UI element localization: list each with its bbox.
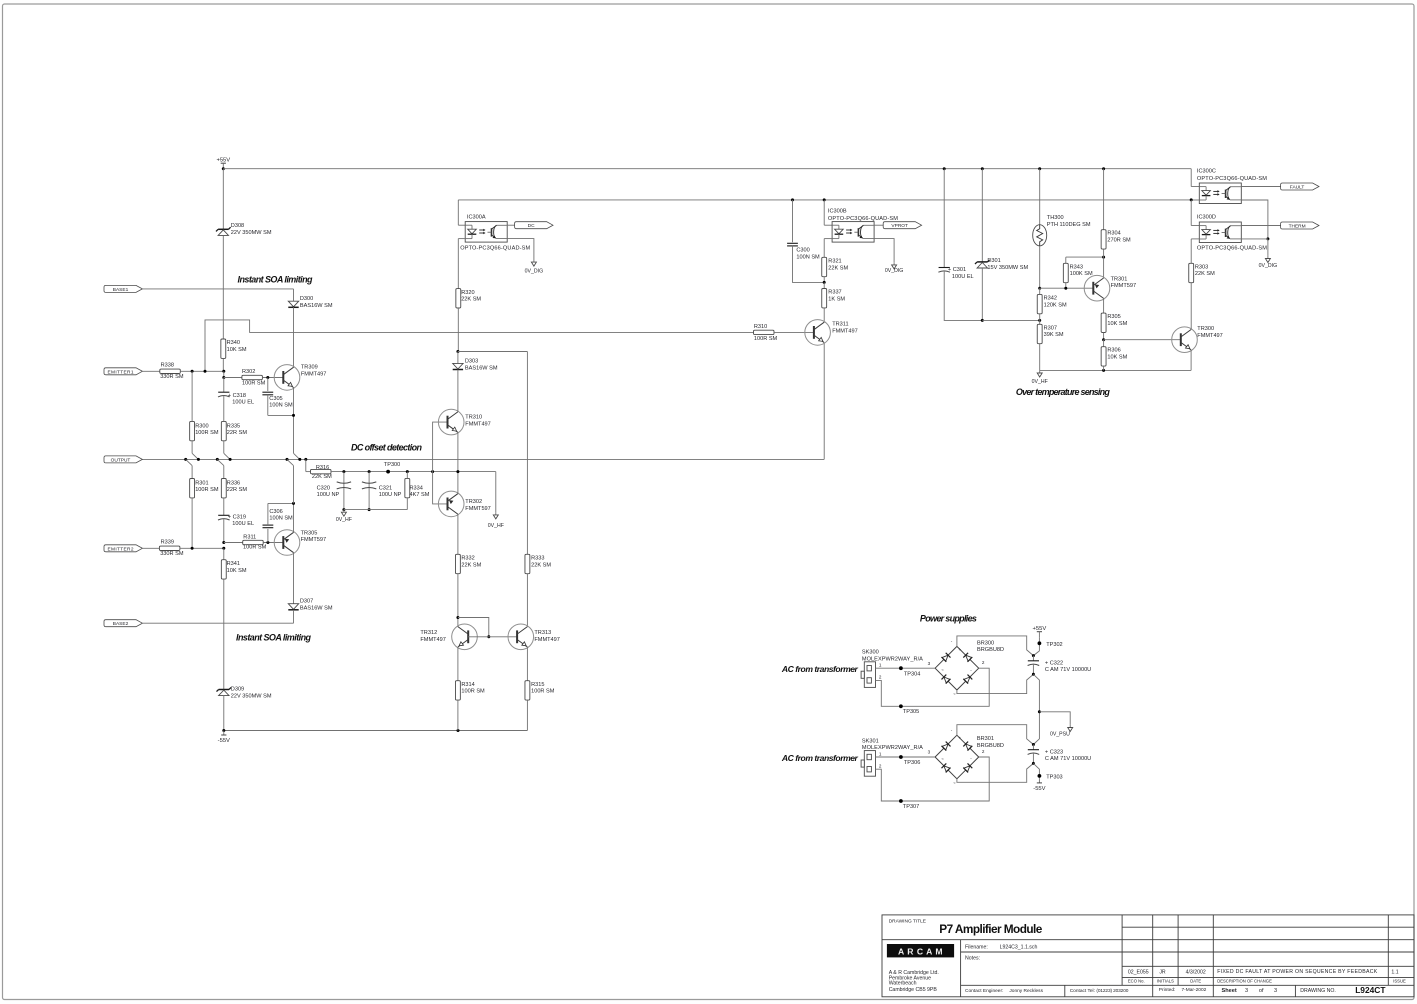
svg-text:22K SM: 22K SM: [1195, 271, 1215, 277]
svg-text:FMMT497: FMMT497: [420, 637, 446, 643]
svg-text:JR: JR: [1159, 970, 1166, 976]
svg-text:Instant SOA limiting: Instant SOA limiting: [236, 633, 312, 643]
transistor TR309: [274, 365, 300, 391]
svg-text:BRGBU8D: BRGBU8D: [977, 647, 1004, 653]
wire TR309 emitter: [293, 388, 295, 454]
optocoupler IC300A: [457, 200, 459, 225]
svg-text:BASE2: BASE2: [113, 621, 129, 627]
svg-text:Filename:: Filename:: [965, 944, 988, 950]
node top rail junctions: [943, 167, 946, 170]
bridge rectifier BR300: [935, 646, 957, 668]
diode D307: [288, 604, 298, 610]
wire IC300A cathode to R320: [458, 238, 465, 240]
svg-text:0V_DIG: 0V_DIG: [885, 268, 903, 274]
svg-text:D309: D309: [231, 686, 244, 692]
ground 0V_PSU: [1039, 712, 1070, 725]
svg-text:2: 2: [879, 675, 882, 680]
resistor R302: [242, 375, 263, 379]
node OUTPUT jogs left: [192, 453, 198, 459]
svg-text:BAS16W SM: BAS16W SM: [465, 366, 498, 372]
transistor TR300: [1172, 327, 1198, 353]
svg-text:SK301: SK301: [862, 738, 879, 744]
net label EMITTER2: [104, 545, 142, 552]
svg-text:22K SM: 22K SM: [461, 562, 481, 568]
svg-text:1: 1: [879, 751, 882, 756]
svg-text:100N SM: 100N SM: [269, 516, 293, 522]
diode D300: [288, 301, 298, 307]
svg-text:R339: R339: [161, 540, 174, 546]
svg-text:IC300B: IC300B: [828, 209, 847, 215]
svg-text:D307: D307: [300, 599, 313, 605]
svg-text:TR301: TR301: [1111, 276, 1128, 282]
svg-text:Contact Tel:: Contact Tel:: [1070, 988, 1095, 994]
svg-text:330R SM: 330R SM: [160, 374, 184, 380]
svg-text:FMMT597: FMMT597: [465, 506, 491, 512]
svg-text:4K7 SM: 4K7 SM: [410, 492, 430, 498]
wire BR300 negative loop: [957, 674, 1034, 693]
transistor TR311: [805, 320, 831, 346]
svg-text:100U EL: 100U EL: [952, 274, 974, 280]
svg-text:TR310: TR310: [465, 414, 482, 420]
test point TP305: [899, 704, 903, 708]
svg-text:R338: R338: [161, 363, 174, 369]
transistor TR301: [1103, 257, 1105, 278]
svg-text:BRGBU8D: BRGBU8D: [977, 743, 1004, 749]
resistor R306: [1103, 340, 1105, 347]
svg-text:R332: R332: [461, 555, 474, 561]
test point TP307: [899, 799, 903, 803]
svg-text:Over temperature sensing: Over temperature sensing: [1016, 387, 1111, 397]
svg-text:3: 3: [928, 750, 931, 755]
svg-text:OPTO-PC3Q66-QUAD-SM: OPTO-PC3Q66-QUAD-SM: [828, 216, 898, 222]
svg-text:100R SM: 100R SM: [243, 545, 267, 551]
wire OUTPUT bus: [142, 458, 824, 460]
wire R311 base line: [222, 541, 225, 544]
transistor TR313: [508, 624, 534, 650]
wire IC300D cathode to R303: [1191, 238, 1199, 240]
svg-text:TR300: TR300: [1197, 326, 1214, 332]
zener D301: [981, 169, 983, 262]
net label EMITTER1: [104, 368, 142, 375]
svg-text:0V_DIG: 0V_DIG: [1259, 263, 1277, 269]
zener D309: [219, 689, 229, 691]
svg-text:TR305: TR305: [301, 530, 318, 536]
svg-text:FMMT497: FMMT497: [832, 329, 858, 335]
node emitter junction: [1266, 237, 1269, 240]
wire 0V_HF rail: [1040, 369, 1191, 371]
resistor R333: [526, 352, 528, 555]
svg-text:TP300: TP300: [384, 462, 400, 468]
svg-text:22K SM: 22K SM: [312, 474, 332, 480]
svg-text:MOLEXPWR2WAY_R/A: MOLEXPWR2WAY_R/A: [862, 745, 923, 751]
svg-text:BASE1: BASE1: [113, 287, 129, 293]
ground 0V_DIG under IC300A: [507, 239, 534, 260]
svg-text:P7 Amplifier Module: P7 Amplifier Module: [939, 922, 1042, 936]
node EMITTER1 junctions: [191, 370, 194, 373]
wire TR300 emitter: [1190, 350, 1192, 371]
svg-text:Jonny Reckless: Jonny Reckless: [1009, 988, 1043, 994]
svg-text:100U EL: 100U EL: [232, 521, 254, 527]
node R305/R306 junction: [1102, 338, 1105, 341]
test point TP304: [899, 666, 903, 670]
svg-text:10K SM: 10K SM: [1107, 355, 1127, 361]
svg-text:A R C A M: A R C A M: [898, 946, 943, 956]
bridge rectifier BR301: [935, 735, 957, 757]
transistor TR312: [452, 624, 478, 650]
svg-text:IC300C: IC300C: [1197, 169, 1216, 175]
wire TR302 collector to R332: [457, 514, 459, 554]
svg-text:100N SM: 100N SM: [269, 402, 293, 408]
wire EMITTER1 lead: [142, 370, 159, 372]
svg-text:22R SM: 22R SM: [227, 487, 248, 493]
svg-text:Power supplies: Power supplies: [920, 614, 977, 624]
svg-text:TP304: TP304: [904, 671, 920, 677]
svg-text:100U NP: 100U NP: [379, 492, 402, 498]
wire EMITTER1 feedback to R310: [205, 320, 754, 371]
wire R302 base line: [223, 371, 225, 377]
svg-text:C321: C321: [379, 485, 392, 491]
svg-text:TR302: TR302: [465, 499, 482, 505]
svg-text:R303: R303: [1195, 264, 1208, 270]
svg-text:Instant SOA limiting: Instant SOA limiting: [238, 275, 314, 285]
svg-text:-55V: -55V: [218, 738, 230, 744]
capacitor C318: [223, 378, 225, 393]
svg-text:R342: R342: [1044, 295, 1057, 301]
svg-text:D303: D303: [465, 359, 478, 365]
svg-text:DATE: DATE: [1190, 979, 1201, 984]
svg-text:4/3/2002: 4/3/2002: [1186, 970, 1206, 976]
svg-text:ECO No.: ECO No.: [1128, 979, 1145, 984]
svg-text:C320: C320: [317, 485, 330, 491]
wire TP302 jog: [1033, 651, 1039, 656]
svg-text:R314: R314: [461, 682, 474, 688]
connector SK300: [864, 662, 875, 688]
wire +55V top rail: [223, 168, 1191, 170]
svg-text:0V_PSU: 0V_PSU: [1050, 732, 1070, 738]
svg-text:270R SM: 270R SM: [1107, 238, 1131, 244]
svg-text:22K SM: 22K SM: [461, 297, 481, 303]
node TR312 collector-base tie: [456, 616, 459, 619]
wire TR301 base line: [1040, 287, 1094, 289]
svg-text:IC300D: IC300D: [1197, 215, 1216, 221]
resistor R310: [754, 330, 775, 334]
svg-text:OPTO-PC3Q66-QUAD-SM: OPTO-PC3Q66-QUAD-SM: [460, 245, 530, 251]
svg-text:100N SM: 100N SM: [796, 254, 820, 260]
resistor R303: [1189, 263, 1194, 282]
ground 0V_HF under R307: [1039, 370, 1041, 373]
node C323 bottom: [1032, 762, 1035, 765]
wire filter bottom: [344, 509, 407, 511]
svg-text:R307: R307: [1044, 325, 1057, 331]
svg-text:C300: C300: [796, 248, 809, 254]
capacitor C300: [791, 198, 794, 201]
svg-text:22K SM: 22K SM: [531, 562, 551, 568]
svg-text:3: 3: [1245, 988, 1248, 994]
node 0V_PSU tap: [1038, 710, 1041, 713]
svg-text:OUTPUT: OUTPUT: [111, 457, 131, 463]
wire IC300B cathode to R321: [824, 238, 832, 240]
resistor R321: [822, 257, 827, 276]
svg-text:FMMT497: FMMT497: [534, 637, 560, 643]
wire lower link: [981, 319, 984, 322]
wire SK300 pin2: [876, 668, 990, 706]
capacitor C321: [368, 470, 371, 473]
connector SK301: [864, 751, 875, 777]
svg-text:R316: R316: [316, 465, 329, 471]
svg-text:R336: R336: [227, 480, 240, 486]
svg-text:R302: R302: [242, 369, 255, 375]
svg-text:2: 2: [879, 764, 882, 769]
svg-text:10K SM: 10K SM: [227, 347, 247, 353]
svg-text:R311: R311: [243, 534, 256, 540]
wire IC300C emitter: [1241, 200, 1268, 239]
wire TP300 net: [331, 471, 458, 473]
wire TR310 emitter to TR302: [457, 432, 459, 493]
node C323 top: [1032, 743, 1035, 746]
logo ARCAM: [887, 944, 954, 957]
svg-text:3: 3: [928, 661, 931, 666]
svg-text:FIXED DC FAULT AT POWER ON SEQ: FIXED DC FAULT AT POWER ON SEQUENCE BY F…: [1217, 969, 1378, 975]
svg-text:R306: R306: [1107, 348, 1120, 354]
svg-text:AC from transformer: AC from transformer: [781, 753, 859, 763]
resistor R307: [1039, 320, 1041, 324]
net label OUTPUT: [104, 456, 142, 463]
svg-text:TR311: TR311: [832, 322, 848, 328]
resistor R311: [243, 540, 264, 544]
svg-text:+ C301: + C301: [948, 267, 966, 273]
test point TP302: [1038, 637, 1040, 651]
wire EMITTER1 line: [180, 370, 224, 372]
svg-text:R335: R335: [227, 423, 240, 429]
capacitor C320: [342, 470, 345, 473]
wire TR312-TR313 base link: [468, 636, 517, 638]
svg-text:2: 2: [982, 660, 985, 665]
svg-text:15V 350MW SM: 15V 350MW SM: [987, 265, 1028, 271]
svg-text:C AM 71V 10000U: C AM 71V 10000U: [1045, 756, 1091, 762]
svg-text:R343: R343: [1070, 264, 1083, 270]
svg-text:TR313: TR313: [534, 630, 551, 636]
svg-text:Waterbeach: Waterbeach: [889, 981, 917, 987]
wire BASE1: [142, 288, 293, 290]
svg-text:D301: D301: [987, 258, 1000, 264]
node R321/R337 junction: [823, 281, 826, 284]
zener D308: [222, 169, 224, 230]
svg-text:R320: R320: [461, 290, 474, 296]
capacitor C323: [1032, 745, 1034, 750]
wire TR313 emitter: [526, 647, 528, 681]
ground 0V_HF under C320: [343, 510, 345, 513]
node OUTPUT jogs middle: [294, 453, 300, 459]
svg-text:R301: R301: [195, 480, 208, 486]
net label DC: [507, 224, 514, 226]
power -55V: [223, 731, 225, 736]
svg-text:D308: D308: [231, 223, 244, 229]
ground 0V_DIG under IC300D: [1267, 239, 1269, 256]
svg-text:AC from transformer: AC from transformer: [781, 664, 859, 674]
svg-text:C306: C306: [269, 509, 282, 515]
node opto bus end: [1191, 199, 1199, 201]
svg-text:R315: R315: [531, 682, 544, 688]
wire BR301 positive loop: [957, 725, 1034, 745]
svg-text:TH300: TH300: [1047, 215, 1064, 221]
resistor R304: [1103, 169, 1105, 230]
svg-text:+: +: [959, 736, 962, 741]
svg-text:EMITTER1: EMITTER1: [108, 369, 134, 375]
svg-text:0V_DIG: 0V_DIG: [525, 268, 543, 274]
svg-text:FAULT: FAULT: [1290, 185, 1305, 191]
svg-text:+ C319: + C319: [228, 514, 246, 520]
svg-text:100K SM: 100K SM: [1070, 271, 1093, 277]
svg-text:10K SM: 10K SM: [1107, 321, 1127, 327]
svg-text:Sheet: Sheet: [1222, 988, 1237, 994]
svg-text:BR300: BR300: [977, 640, 994, 646]
wire TR305 collector down: [293, 553, 295, 604]
svg-text:PTH 110DEG SM: PTH 110DEG SM: [1047, 222, 1091, 228]
svg-text:+ C323: + C323: [1045, 749, 1063, 755]
wire BASE2: [142, 622, 293, 624]
svg-text:OPTO-PC3Q66-QUAD-SM: OPTO-PC3Q66-QUAD-SM: [1197, 246, 1267, 252]
svg-text:100R SM: 100R SM: [195, 487, 219, 493]
capacitor C301: [943, 169, 945, 268]
svg-text:D300: D300: [300, 296, 313, 302]
wire TP303 jog: [1033, 763, 1039, 778]
svg-text:TP302: TP302: [1046, 642, 1062, 648]
wire R341 to D309: [223, 579, 225, 689]
optocoupler IC300D: [1199, 222, 1241, 243]
diode D303: [457, 352, 459, 364]
svg-text:Cambridge CB5 9PB: Cambridge CB5 9PB: [889, 987, 938, 993]
svg-text:of: of: [1259, 988, 1264, 994]
svg-text:C305: C305: [269, 396, 282, 402]
svg-text:39K SM: 39K SM: [1044, 332, 1064, 338]
svg-text:22V 350MW SM: 22V 350MW SM: [231, 230, 272, 236]
svg-text:R341: R341: [227, 561, 240, 567]
svg-text:Printed:: Printed:: [1159, 987, 1176, 993]
svg-text:0V_HF: 0V_HF: [336, 517, 352, 523]
svg-text:R305: R305: [1107, 314, 1120, 320]
svg-text:THERM: THERM: [1289, 224, 1306, 230]
svg-text:INITIALS: INITIALS: [1157, 979, 1174, 984]
svg-text:10K SM: 10K SM: [227, 568, 247, 574]
svg-text:C AM 71V 10000U: C AM 71V 10000U: [1045, 667, 1091, 673]
svg-text:100R SM: 100R SM: [461, 689, 485, 695]
svg-text:R337: R337: [828, 290, 841, 296]
wire IC300D emitter: [1241, 238, 1268, 240]
svg-text:+55V: +55V: [1033, 626, 1047, 632]
svg-text:100R SM: 100R SM: [531, 689, 555, 695]
svg-text:100R SM: 100R SM: [754, 336, 778, 342]
svg-text:FMMT597: FMMT597: [1111, 283, 1137, 289]
svg-text:TP303: TP303: [1046, 775, 1062, 781]
svg-text:+ C318: + C318: [228, 393, 246, 399]
test point TP303: [1038, 774, 1042, 778]
svg-text:7-Mar-2002: 7-Mar-2002: [1182, 987, 1207, 993]
wire SK300 pin1: [876, 667, 936, 669]
resistor R301: [191, 466, 193, 479]
svg-text:22V 350MW SM: 22V 350MW SM: [231, 693, 272, 699]
svg-text:120K SM: 120K SM: [1044, 302, 1067, 308]
svg-text:BAS16W SM: BAS16W SM: [300, 606, 333, 612]
resistor R334: [406, 470, 409, 473]
wire -55V rail: [224, 730, 528, 732]
capacitor C305: [267, 378, 269, 392]
power -55V at TP303: [1038, 778, 1040, 783]
svg-text:R333: R333: [531, 555, 544, 561]
svg-text:TP307: TP307: [903, 804, 919, 810]
wire BR300 positive loop: [957, 636, 1034, 656]
node D303 junction: [456, 350, 459, 353]
node C322 top: [1032, 654, 1035, 657]
ground 0V_DIG under IC300B: [874, 239, 894, 263]
svg-text:BAS16W SM: BAS16W SM: [300, 303, 333, 309]
wire D300 to TR309 collector: [293, 307, 295, 367]
svg-text:TP305: TP305: [903, 709, 919, 715]
wire BR301 negative loop: [957, 763, 1034, 782]
svg-text:1K SM: 1K SM: [828, 297, 845, 303]
resistor R314: [455, 681, 460, 700]
node TH300 bottom junction: [1038, 287, 1041, 290]
transistor TR305: [274, 530, 300, 556]
svg-text:VPROT: VPROT: [891, 223, 908, 229]
svg-text:FMMT497: FMMT497: [301, 372, 327, 378]
svg-text:22K SM: 22K SM: [828, 265, 848, 271]
svg-text:330R SM: 330R SM: [160, 551, 184, 557]
svg-text:R310: R310: [754, 324, 767, 330]
svg-text:1.1: 1.1: [1391, 970, 1398, 976]
wire TR310/TR302 base column: [431, 470, 434, 473]
svg-text:OPTO-PC3Q66-QUAD-SM: OPTO-PC3Q66-QUAD-SM: [1197, 176, 1267, 182]
svg-text:L924CT: L924CT: [1355, 985, 1386, 995]
wire 0V mid rail: [1033, 674, 1039, 744]
node C322 bottom: [1032, 673, 1035, 676]
svg-text:BR301: BR301: [977, 736, 994, 742]
svg-text:MOLEXPWR2WAY_R/A: MOLEXPWR2WAY_R/A: [862, 656, 923, 662]
wire EMITTER2 line: [180, 547, 224, 549]
resistor R337: [823, 282, 825, 288]
svg-text:3: 3: [1274, 988, 1277, 994]
svg-text:TR309: TR309: [301, 365, 318, 371]
svg-text:R300: R300: [195, 423, 208, 429]
resistor R320: [456, 289, 461, 308]
wire D308 to R340: [222, 235, 224, 339]
svg-text:2: 2: [982, 749, 985, 754]
svg-text:100U NP: 100U NP: [317, 492, 340, 498]
resistor R335: [221, 421, 226, 440]
svg-text:1: 1: [879, 663, 882, 668]
wire SK301 pin1: [876, 756, 936, 758]
transistor TR302: [438, 491, 464, 517]
resistor R332: [455, 554, 460, 573]
optocoupler IC300B: [823, 198, 826, 201]
resistor R315: [525, 681, 530, 700]
svg-text:100R SM: 100R SM: [195, 430, 219, 436]
wire opto cathode bus: [458, 199, 1191, 201]
resistor R339: [159, 546, 180, 550]
wire SK301 pin2: [876, 757, 990, 801]
svg-text:Notes:: Notes:: [965, 955, 980, 961]
svg-text:DC: DC: [528, 223, 535, 229]
svg-text:0V_HF: 0V_HF: [1032, 379, 1048, 385]
svg-text:DRAWING TITLE: DRAWING TITLE: [889, 919, 926, 925]
net label BASE2: [104, 620, 142, 627]
thermistor TH300: [1039, 169, 1041, 225]
svg-text:-55V: -55V: [1033, 786, 1045, 792]
net label THERM: [1241, 225, 1280, 227]
svg-text:DC offset detection: DC offset detection: [351, 443, 423, 453]
svg-text:L924C3_1.1.sch: L924C3_1.1.sch: [1000, 944, 1038, 950]
svg-text:+: +: [959, 647, 962, 652]
ground 0V_HF right of TR302: [495, 472, 497, 513]
